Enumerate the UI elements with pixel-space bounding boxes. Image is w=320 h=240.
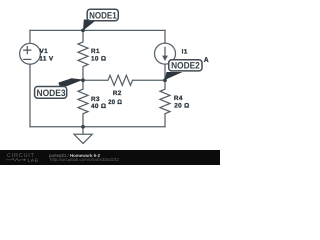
- svg-text:R3: R3: [91, 96, 100, 103]
- svg-text:I1: I1: [182, 49, 188, 56]
- svg-text:R1: R1: [91, 48, 100, 55]
- svg-text:A: A: [204, 57, 209, 64]
- svg-text:40 Ω: 40 Ω: [91, 103, 106, 110]
- svg-text:R2: R2: [113, 90, 122, 97]
- svg-text:20 Ω: 20 Ω: [174, 102, 189, 109]
- svg-text:V1: V1: [40, 48, 49, 55]
- svg-text:LAB: LAB: [28, 158, 39, 164]
- svg-text:NODE2: NODE2: [171, 60, 200, 70]
- svg-text:10 Ω: 10 Ω: [91, 56, 106, 63]
- svg-text:20 Ω: 20 Ω: [108, 99, 122, 106]
- svg-text:NODE1: NODE1: [89, 10, 117, 20]
- svg-text:R4: R4: [174, 95, 183, 102]
- svg-text:NODE3: NODE3: [37, 88, 66, 98]
- svg-text:http://circuitlab.com/c6vdrs32: http://circuitlab.com/c6vdrs32a3z32: [50, 157, 119, 162]
- svg-text:11 V: 11 V: [39, 55, 54, 62]
